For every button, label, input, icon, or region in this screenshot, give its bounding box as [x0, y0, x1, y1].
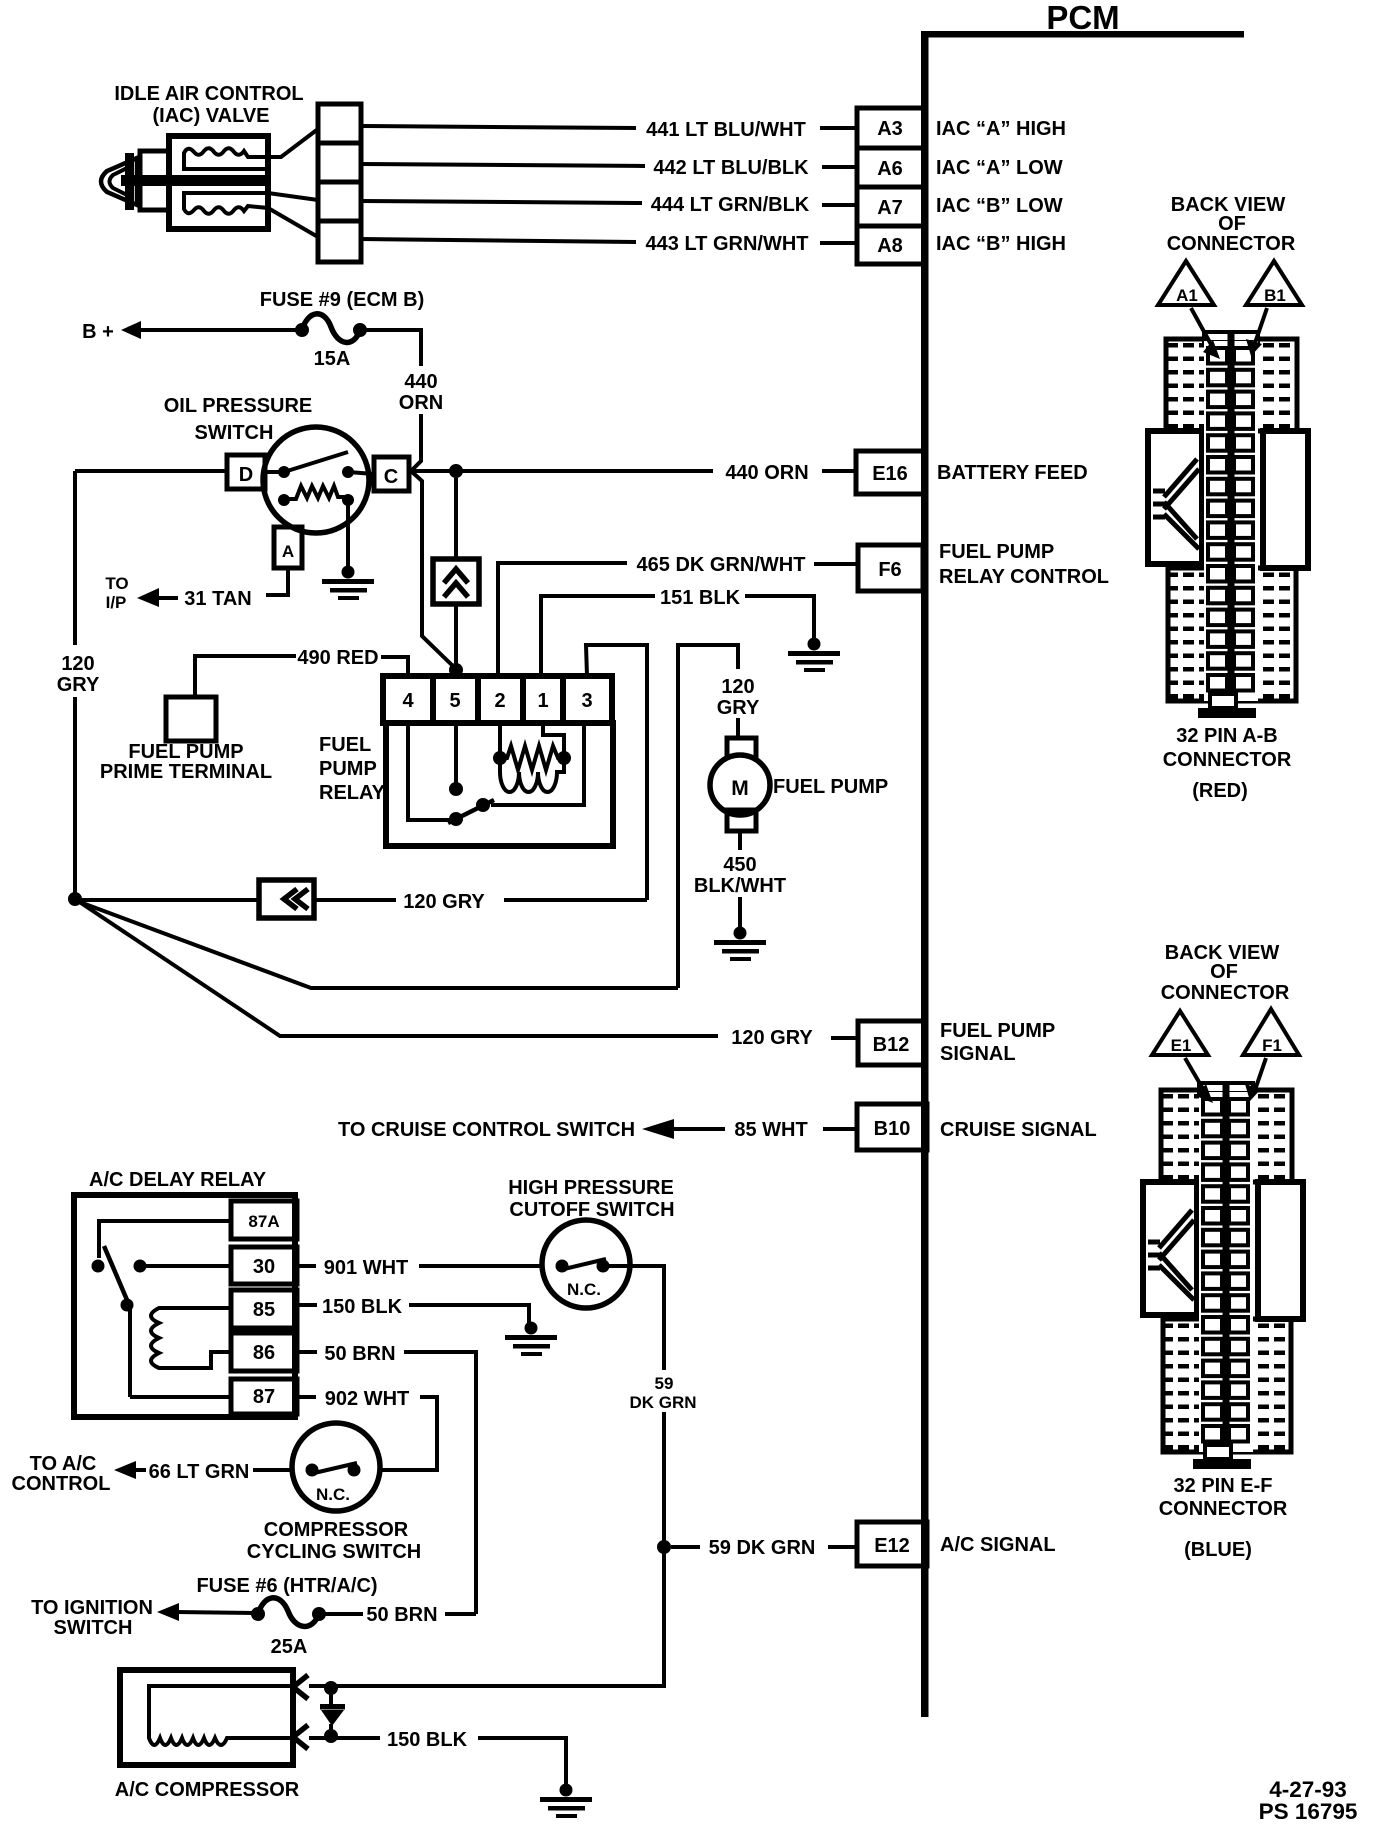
svg-text:D: D — [239, 464, 253, 486]
svg-text:RELAY CONTROL: RELAY CONTROL — [939, 566, 1109, 588]
svg-text:TO A/C: TO A/C — [30, 1453, 97, 1475]
svg-text:151 BLK: 151 BLK — [660, 587, 741, 609]
svg-text:N.C.: N.C. — [567, 1280, 601, 1299]
svg-text:86: 86 — [253, 1342, 275, 1364]
svg-text:120: 120 — [61, 653, 94, 675]
svg-text:FUEL PUMP: FUEL PUMP — [939, 541, 1054, 563]
svg-text:IAC “B” HIGH: IAC “B” HIGH — [936, 233, 1066, 255]
svg-text:A: A — [282, 542, 294, 561]
svg-text:SIGNAL: SIGNAL — [940, 1043, 1016, 1065]
svg-text:B12: B12 — [873, 1034, 910, 1056]
svg-text:5: 5 — [449, 690, 460, 712]
svg-text:444 LT GRN/BLK: 444 LT GRN/BLK — [651, 194, 810, 216]
svg-text:PS 16795: PS 16795 — [1259, 1799, 1358, 1824]
svg-text:TO: TO — [105, 574, 128, 593]
svg-text:CYCLING SWITCH: CYCLING SWITCH — [247, 1541, 421, 1563]
svg-text:N.C.: N.C. — [316, 1485, 350, 1504]
svg-text:150 BLK: 150 BLK — [387, 1729, 468, 1751]
svg-text:150 BLK: 150 BLK — [322, 1296, 403, 1318]
svg-text:CONNECTOR: CONNECTOR — [1167, 233, 1296, 255]
svg-text:59: 59 — [655, 1374, 674, 1393]
svg-text:TO IGNITION: TO IGNITION — [31, 1597, 153, 1619]
svg-text:I/P: I/P — [106, 593, 127, 612]
svg-text:HIGH PRESSURE: HIGH PRESSURE — [508, 1177, 674, 1199]
svg-text:120 GRY: 120 GRY — [403, 891, 485, 913]
svg-text:120: 120 — [721, 676, 754, 698]
svg-text:A6: A6 — [877, 158, 903, 180]
svg-text:IAC “A” LOW: IAC “A” LOW — [936, 157, 1063, 179]
svg-text:E12: E12 — [874, 1535, 910, 1557]
svg-text:442 LT BLU/BLK: 442 LT BLU/BLK — [653, 157, 809, 179]
svg-text:CONNECTOR: CONNECTOR — [1159, 1498, 1288, 1520]
svg-text:443 LT GRN/WHT: 443 LT GRN/WHT — [646, 233, 809, 255]
svg-text:PCM: PCM — [1046, 0, 1119, 36]
svg-text:OF: OF — [1210, 961, 1238, 983]
svg-text:59 DK GRN: 59 DK GRN — [709, 1537, 816, 1559]
svg-text:30: 30 — [253, 1256, 275, 1278]
svg-text:FUEL PUMP: FUEL PUMP — [128, 741, 243, 763]
svg-text:3: 3 — [581, 690, 592, 712]
svg-text:A/C DELAY RELAY: A/C DELAY RELAY — [89, 1169, 267, 1191]
svg-text:OIL PRESSURE: OIL PRESSURE — [164, 395, 313, 417]
svg-text:GRY: GRY — [717, 697, 760, 719]
svg-text:A1: A1 — [1176, 286, 1198, 305]
svg-text:M: M — [731, 777, 749, 800]
svg-text:85 WHT: 85 WHT — [734, 1119, 807, 1141]
svg-text:440: 440 — [404, 371, 437, 393]
svg-text:50 BRN: 50 BRN — [366, 1604, 437, 1626]
svg-text:FUSE #6 (HTR/A/C): FUSE #6 (HTR/A/C) — [196, 1575, 377, 1597]
svg-text:OF: OF — [1218, 213, 1246, 235]
svg-text:IDLE AIR CONTROL: IDLE AIR CONTROL — [114, 83, 303, 105]
svg-text:A/C SIGNAL: A/C SIGNAL — [940, 1534, 1056, 1556]
svg-text:25A: 25A — [271, 1636, 308, 1658]
svg-text:E1: E1 — [1171, 1036, 1192, 1055]
svg-text:A3: A3 — [877, 118, 903, 140]
svg-text:450: 450 — [723, 854, 756, 876]
svg-text:F6: F6 — [878, 559, 901, 581]
svg-text:66 LT GRN: 66 LT GRN — [149, 1461, 250, 1483]
svg-text:FUEL PUMP: FUEL PUMP — [773, 776, 888, 798]
svg-text:GRY: GRY — [57, 674, 100, 696]
svg-text:A/C COMPRESSOR: A/C COMPRESSOR — [115, 1779, 300, 1801]
svg-text:DK GRN: DK GRN — [629, 1393, 696, 1412]
svg-text:4: 4 — [402, 690, 414, 712]
svg-text:B +: B + — [82, 321, 114, 343]
svg-text:15A: 15A — [314, 348, 351, 370]
svg-text:IAC “A” HIGH: IAC “A” HIGH — [936, 118, 1066, 140]
svg-text:440 ORN: 440 ORN — [725, 462, 808, 484]
svg-text:CONNECTOR: CONNECTOR — [1163, 749, 1292, 771]
svg-text:FUSE #9 (ECM B): FUSE #9 (ECM B) — [260, 289, 424, 311]
svg-text:A8: A8 — [877, 235, 903, 257]
svg-text:50 BRN: 50 BRN — [324, 1343, 395, 1365]
svg-text:465 DK GRN/WHT: 465 DK GRN/WHT — [637, 554, 806, 576]
svg-text:32 PIN E-F: 32 PIN E-F — [1174, 1475, 1273, 1497]
svg-text:87: 87 — [253, 1386, 275, 1408]
svg-text:RELAY: RELAY — [319, 782, 386, 804]
svg-text:BLK/WHT: BLK/WHT — [694, 875, 786, 897]
svg-text:CRUISE SIGNAL: CRUISE SIGNAL — [940, 1119, 1097, 1141]
svg-text:SWITCH: SWITCH — [195, 422, 274, 444]
svg-text:87A: 87A — [248, 1212, 279, 1231]
svg-text:C: C — [384, 466, 398, 488]
svg-text:901 WHT: 901 WHT — [324, 1257, 408, 1279]
svg-text:B1: B1 — [1264, 286, 1286, 305]
svg-text:902 WHT: 902 WHT — [325, 1388, 409, 1410]
svg-text:(IAC) VALVE: (IAC) VALVE — [152, 105, 269, 127]
svg-text:F1: F1 — [1262, 1036, 1282, 1055]
svg-text:32 PIN A-B: 32 PIN A-B — [1176, 725, 1278, 747]
svg-text:A7: A7 — [877, 197, 903, 219]
svg-text:ORN: ORN — [399, 392, 443, 414]
svg-text:120 GRY: 120 GRY — [731, 1027, 813, 1049]
svg-text:CONNECTOR: CONNECTOR — [1161, 982, 1290, 1004]
svg-text:1: 1 — [537, 690, 548, 712]
svg-text:COMPRESSOR: COMPRESSOR — [264, 1519, 409, 1541]
svg-text:PRIME TERMINAL: PRIME TERMINAL — [100, 761, 272, 783]
svg-text:441 LT BLU/WHT: 441 LT BLU/WHT — [646, 119, 806, 141]
svg-text:31 TAN: 31 TAN — [184, 588, 251, 610]
svg-text:FUEL: FUEL — [319, 734, 371, 756]
svg-text:CONTROL: CONTROL — [12, 1473, 111, 1495]
svg-text:IAC “B” LOW: IAC “B” LOW — [936, 195, 1063, 217]
svg-text:490 RED: 490 RED — [297, 647, 378, 669]
svg-text:2: 2 — [494, 690, 505, 712]
svg-text:(BLUE): (BLUE) — [1184, 1539, 1252, 1561]
svg-text:(RED): (RED) — [1192, 780, 1248, 802]
svg-text:SWITCH: SWITCH — [54, 1617, 133, 1639]
svg-text:85: 85 — [253, 1299, 275, 1321]
svg-text:PUMP: PUMP — [319, 758, 377, 780]
svg-text:E16: E16 — [872, 463, 908, 485]
svg-text:TO CRUISE CONTROL SWITCH: TO CRUISE CONTROL SWITCH — [338, 1119, 635, 1141]
svg-text:B10: B10 — [874, 1118, 911, 1140]
svg-text:FUEL PUMP: FUEL PUMP — [940, 1020, 1055, 1042]
svg-text:BATTERY FEED: BATTERY FEED — [937, 462, 1088, 484]
